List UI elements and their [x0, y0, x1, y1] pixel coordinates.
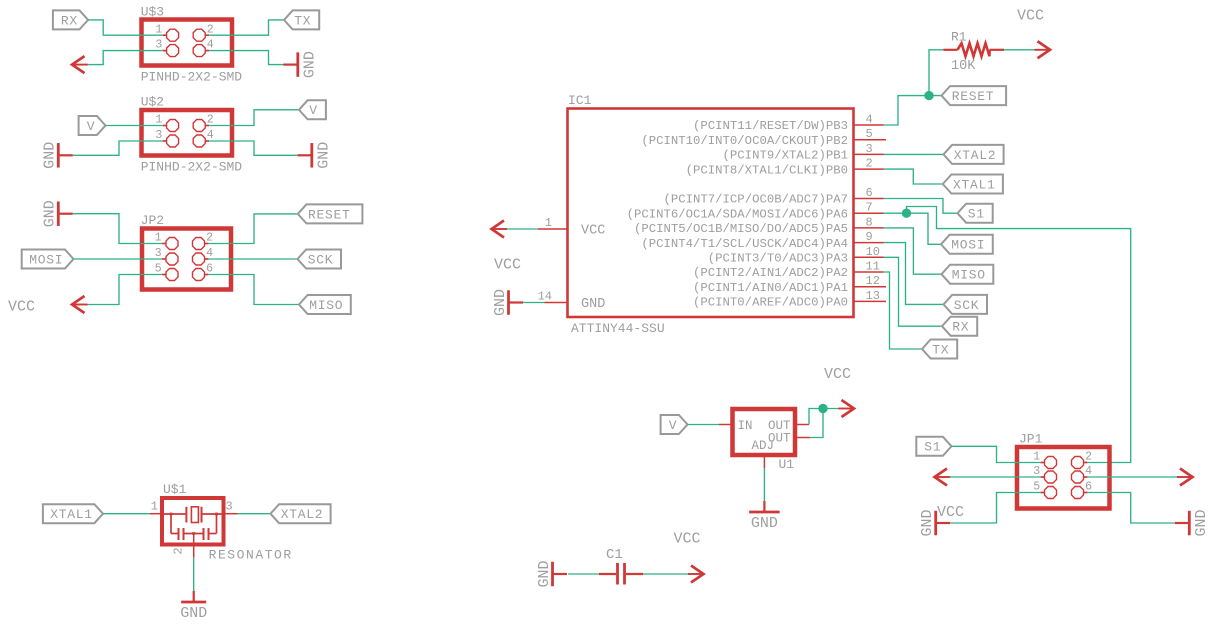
wire U$3 pin 3 to VCC arrow	[87, 51, 162, 65]
VCC arrow right of R1	[1038, 41, 1051, 58]
svg-text:(PCINT7/ICP/OC0B/ADC7)PA7: (PCINT7/ICP/OC0B/ADC7)PA7	[664, 193, 848, 207]
ground left of IC1	[507, 290, 510, 315]
svg-text:14: 14	[538, 290, 552, 304]
svg-text:IC1: IC1	[568, 93, 592, 108]
svg-text:(PCINT3/T0/ADC3)PA3: (PCINT3/T0/ADC3)PA3	[708, 252, 848, 266]
JP1 pin 3	[1045, 471, 1057, 483]
flag V right of U$2	[299, 100, 326, 119]
svg-text:(PCINT4/T1/SCL/USCK/ADC4)PA4: (PCINT4/T1/SCL/USCK/ADC4)PA4	[641, 237, 848, 251]
flag S1 right of IC1	[958, 204, 993, 223]
flag MISO right of IC1	[942, 265, 994, 284]
wire IC1 PA7 to S1	[884, 199, 958, 214]
svg-text:ADJ: ADJ	[752, 439, 775, 453]
JP1 pin 6	[1072, 487, 1084, 499]
flag RESET right of JP2	[298, 204, 363, 223]
JP2 pin 1	[166, 238, 178, 250]
U1 body	[733, 409, 796, 455]
ground below right of JP1	[1188, 511, 1191, 536]
wire GND to C1	[568, 573, 599, 575]
svg-text:V: V	[669, 418, 678, 433]
wire VCC arrow to IC1 pin 1	[507, 228, 538, 230]
svg-text:1: 1	[155, 23, 162, 36]
ground below left of JP1	[934, 511, 937, 536]
svg-text:U$2: U$2	[141, 95, 164, 110]
svg-text:PINHD-2X2-SMD: PINHD-2X2-SMD	[141, 69, 243, 84]
wire RX to U$3 pin 1	[88, 20, 163, 35]
svg-text:JP1: JP1	[1019, 432, 1043, 447]
JP2 pin 3	[166, 253, 178, 265]
svg-text:V: V	[87, 119, 96, 134]
svg-text:GND: GND	[581, 297, 605, 312]
svg-text:(PCINT2/AIN1/ADC2)PA2: (PCINT2/AIN1/ADC2)PA2	[693, 266, 848, 280]
svg-text:2: 2	[206, 232, 213, 245]
flag MOSI left of JP2	[22, 250, 74, 269]
flag TX	[284, 10, 319, 29]
U$2 body	[142, 110, 233, 156]
JP2 body	[142, 229, 231, 290]
svg-text:7: 7	[866, 201, 873, 215]
svg-text:12: 12	[866, 274, 880, 288]
JP1 pin 2	[1072, 457, 1084, 469]
svg-text:MISO: MISO	[309, 298, 343, 313]
U$2 pin 4	[193, 135, 205, 147]
flag V left of U$2	[79, 116, 106, 135]
svg-text:(PCINT1/AIN0/ADC1)PA1: (PCINT1/AIN0/ADC1)PA1	[693, 281, 848, 295]
U1 ADJ pin stub	[763, 455, 765, 468]
svg-text:6: 6	[206, 263, 213, 276]
U$1 crystal symbol	[162, 513, 186, 515]
svg-text:GND: GND	[301, 51, 318, 78]
JP1 body	[1017, 447, 1110, 509]
wire JP1 pin 5 to GND	[951, 493, 1041, 524]
wire U$3 pin 4 to GND	[209, 51, 284, 65]
wire U1 ADJ to GND	[763, 468, 765, 501]
svg-text:ATTINY44-SSU: ATTINY44-SSU	[571, 321, 665, 336]
svg-text:3: 3	[155, 247, 162, 260]
svg-text:3: 3	[1033, 465, 1040, 478]
svg-text:VCC: VCC	[674, 531, 701, 548]
ground right of U$3	[296, 52, 299, 77]
svg-text:13: 13	[866, 289, 880, 303]
flag RX right of IC1	[942, 317, 977, 336]
svg-text:4: 4	[1085, 465, 1092, 478]
VCC arrow left of JP1	[935, 469, 948, 486]
svg-text:XTAL1: XTAL1	[50, 507, 93, 522]
ground left of C1	[551, 562, 554, 587]
svg-text:RX: RX	[61, 13, 78, 28]
svg-text:5: 5	[155, 263, 162, 276]
flag XTAL1 right of IC1	[943, 175, 1003, 194]
svg-text:10: 10	[866, 245, 880, 259]
VCC arrow left of IC1	[492, 221, 505, 238]
wire S1 to JP1 pin 1	[952, 446, 1041, 462]
U$3 body	[142, 20, 233, 66]
svg-text:GND: GND	[1193, 509, 1210, 536]
svg-text:JP2: JP2	[141, 213, 164, 228]
svg-text:(PCINT9/XTAL2)PB1: (PCINT9/XTAL2)PB1	[723, 149, 848, 163]
svg-text:U$1: U$1	[163, 482, 187, 497]
flag MISO right of JP2	[299, 295, 351, 314]
svg-text:RESET: RESET	[308, 207, 351, 222]
svg-text:MOSI: MOSI	[29, 252, 63, 267]
wire U$1 pin 3 to XTAL2	[238, 513, 271, 515]
wire U1 OUT upper to VCC	[809, 409, 840, 425]
wire MOSI to JP2 pin 3	[74, 258, 163, 260]
svg-text:VCC: VCC	[937, 504, 964, 521]
U$1 pin 1 stub	[150, 513, 162, 515]
U1 IN pin stub	[719, 424, 733, 426]
svg-text:4: 4	[866, 113, 873, 127]
VCC arrow right of U1	[842, 400, 855, 417]
svg-text:4: 4	[206, 247, 213, 260]
svg-text:GND: GND	[315, 142, 332, 169]
svg-text:1: 1	[155, 114, 162, 127]
wire JP1 pin 6 to GND	[1088, 493, 1175, 524]
svg-text:3: 3	[155, 39, 162, 52]
flag SCK right of JP2	[298, 250, 342, 269]
U$2 pin 2	[193, 120, 205, 132]
resistor R1	[944, 49, 958, 51]
ground above-left of JP2	[57, 201, 60, 226]
U$3 pin 4	[193, 45, 205, 57]
svg-text:RX: RX	[952, 320, 969, 335]
svg-text:(PCINT5/OC1B/MISO/DO/ADC5)PA5: (PCINT5/OC1B/MISO/DO/ADC5)PA5	[634, 222, 848, 236]
ground below U1	[749, 511, 780, 514]
VCC arrow right of JP1	[1180, 469, 1193, 486]
svg-text:GND: GND	[42, 142, 59, 169]
svg-text:11: 11	[866, 260, 880, 274]
svg-text:8: 8	[866, 215, 873, 229]
wire IC1 PA5 to MISO	[884, 228, 942, 274]
svg-text:GND: GND	[536, 560, 553, 587]
IC1 body	[568, 109, 854, 318]
wire U$2 pin 4 to GND	[209, 141, 297, 155]
flag XTAL1 left of U$1	[43, 504, 103, 523]
flag SCK right of IC1	[944, 295, 988, 314]
svg-text:PINHD-2X2-SMD: PINHD-2X2-SMD	[141, 160, 243, 175]
C1 right lead	[626, 573, 643, 575]
JP1 pin 1	[1045, 457, 1057, 469]
svg-text:(PCINT0/AREF/ADC0)PA0: (PCINT0/AREF/ADC0)PA0	[693, 296, 848, 310]
IC1 pin 14 GND stub	[545, 302, 568, 304]
svg-text:U$3: U$3	[141, 4, 164, 19]
svg-text:(PCINT11/RESET/DW)PB3: (PCINT11/RESET/DW)PB3	[693, 119, 848, 133]
svg-text:2: 2	[866, 157, 873, 171]
wire U1 OUT lower to VCC	[810, 409, 823, 438]
U$2 pin 1	[167, 120, 179, 132]
junction on PA6 net	[902, 209, 911, 218]
svg-text:3: 3	[226, 500, 233, 514]
U$2 pin 3	[167, 135, 179, 147]
svg-text:1: 1	[1033, 451, 1040, 464]
C1 plates	[616, 563, 619, 585]
svg-text:V: V	[309, 103, 318, 118]
wire JP2 pin 6 to MISO	[209, 275, 300, 305]
wire IC1 PB0 to XTAL1	[884, 169, 943, 184]
svg-text:VCC: VCC	[824, 366, 851, 383]
svg-text:GND: GND	[492, 289, 509, 316]
wire C1 to VCC arrow	[643, 573, 689, 575]
junction on U1 output net	[818, 404, 827, 413]
wire V to U1 IN	[688, 424, 719, 426]
svg-text:RESONATOR: RESONATOR	[209, 547, 293, 562]
svg-text:GND: GND	[751, 515, 778, 532]
svg-text:IN: IN	[738, 419, 753, 433]
svg-text:3: 3	[155, 129, 162, 142]
IC1 pin 1 VCC stub	[538, 228, 568, 230]
wire U$2 pin 2 to V	[209, 110, 299, 126]
U$1 pin 2 stub	[193, 534, 195, 558]
svg-text:2: 2	[1085, 451, 1092, 464]
svg-text:1: 1	[151, 500, 158, 514]
svg-text:3: 3	[866, 142, 873, 156]
svg-text:2: 2	[207, 114, 214, 127]
wire GND to IC1 pin 14	[514, 302, 544, 304]
U$3 pin 2	[193, 29, 205, 41]
wire GND to JP2 pin 1	[73, 214, 162, 244]
JP2 pin 2	[193, 238, 205, 250]
wire IC1 PB1 to XTAL2	[884, 153, 944, 155]
U1 OUT upper stub	[795, 424, 809, 426]
ground below U$1	[181, 601, 206, 604]
JP2 pin 4	[193, 253, 205, 265]
svg-text:C1: C1	[606, 547, 623, 563]
wire U$1 pin 2 to GND	[193, 558, 195, 593]
wire XTAL1 to U$1 pin 1	[103, 513, 150, 515]
wire U$3 pin 2 to TX	[209, 20, 284, 35]
U$1 body	[162, 498, 224, 545]
VCC arrow below-left of JP2	[72, 296, 85, 313]
wire junction to resistor R1	[929, 50, 944, 96]
svg-text:6: 6	[866, 186, 873, 200]
VCC arrow left of U$3	[72, 56, 85, 73]
svg-text:RESET: RESET	[952, 89, 995, 104]
svg-text:9: 9	[866, 230, 873, 244]
svg-text:VCC: VCC	[1017, 8, 1044, 25]
svg-text:5: 5	[1033, 481, 1040, 494]
U$1 pin 3 stub	[224, 513, 238, 515]
wire R1 to VCC arrow	[1004, 49, 1037, 51]
svg-text:4: 4	[207, 129, 214, 142]
flag V left of U1	[661, 415, 688, 434]
wire U$2 pin 3 to GND	[73, 141, 163, 155]
svg-text:TX: TX	[294, 13, 311, 28]
flag RESET top right	[942, 86, 1007, 105]
svg-text:U1: U1	[779, 457, 795, 472]
svg-text:2: 2	[172, 547, 186, 554]
svg-text:S1: S1	[924, 440, 941, 455]
svg-text:5: 5	[866, 127, 873, 141]
wire VCC arrow to JP1 pin 3	[950, 476, 1041, 478]
svg-text:VCC: VCC	[581, 224, 605, 239]
svg-text:GND: GND	[42, 200, 59, 227]
flag XTAL2 right of U$1	[271, 504, 331, 523]
flag RX	[53, 10, 88, 29]
flag TX below right of IC1	[922, 340, 957, 359]
wire JP1 pin 4 to VCC arrow	[1088, 476, 1178, 478]
JP1 pin 4	[1072, 471, 1084, 483]
ground right of U$2	[310, 143, 313, 168]
wire IC1 PA2 to TX	[884, 272, 923, 349]
svg-text:GND: GND	[180, 605, 207, 622]
junction on RESET net	[924, 91, 933, 100]
svg-text:MISO: MISO	[952, 268, 986, 283]
svg-text:XTAL1: XTAL1	[953, 177, 996, 192]
wire IC1 PB3 to RESET net	[884, 96, 942, 125]
svg-text:SCK: SCK	[308, 252, 334, 267]
svg-text:6: 6	[1085, 481, 1092, 494]
wire V to U$2 pin 1	[106, 125, 163, 127]
flag MOSI right of IC1	[941, 235, 993, 254]
svg-text:XTAL2: XTAL2	[281, 507, 324, 522]
U$3 pin 1	[167, 29, 179, 41]
svg-text:S1: S1	[968, 207, 985, 222]
svg-text:GND: GND	[919, 509, 936, 536]
svg-text:SCK: SCK	[954, 298, 980, 313]
svg-text:2: 2	[207, 23, 214, 36]
VCC arrow right of C1	[691, 566, 704, 583]
svg-text:(PCINT10/INT0/OC0A/CKOUT)PB2: (PCINT10/INT0/OC0A/CKOUT)PB2	[641, 134, 848, 148]
flag S1 left of JP1	[916, 437, 951, 456]
wire JP2 pin 2 to RESET	[209, 214, 298, 244]
JP2 pin 5	[166, 269, 178, 281]
ground left of U$2	[57, 143, 60, 168]
svg-text:(PCINT6/OC1A/SDA/MOSI/ADC6)PA6: (PCINT6/OC1A/SDA/MOSI/ADC6)PA6	[627, 207, 848, 221]
svg-text:(PCINT8/XTAL1/CLKI)PB0: (PCINT8/XTAL1/CLKI)PB0	[686, 163, 848, 177]
wire IC1 PA3 to RX	[884, 257, 943, 326]
wire IC1 PA6 to MOSI	[884, 213, 942, 244]
C1 left lead	[599, 573, 616, 575]
flag XTAL2 right of IC1	[944, 145, 1004, 164]
svg-text:1: 1	[545, 216, 552, 230]
JP2 pin 6	[193, 269, 205, 281]
svg-text:4: 4	[207, 39, 214, 52]
svg-text:VCC: VCC	[8, 299, 35, 316]
U$1 internal capacitors	[170, 513, 173, 516]
U1 OUT lower stub	[795, 437, 810, 439]
svg-text:TX: TX	[932, 342, 949, 357]
svg-text:MOSI: MOSI	[951, 238, 985, 253]
svg-text:1: 1	[155, 232, 162, 245]
svg-text:VCC: VCC	[494, 257, 521, 274]
svg-text:R1: R1	[951, 29, 967, 44]
wire PA6 junction to JP1 pin 2	[907, 207, 1131, 463]
svg-text:XTAL2: XTAL2	[954, 148, 997, 163]
wire IC1 PA4 to SCK	[884, 243, 944, 305]
U$3 pin 3	[167, 45, 179, 57]
wire JP2 pin 4 to SCK	[209, 258, 298, 260]
wire JP2 pin 5 to VCC arrow	[87, 275, 162, 305]
JP1 pin 5	[1045, 487, 1057, 499]
svg-text:10K: 10K	[951, 59, 976, 74]
